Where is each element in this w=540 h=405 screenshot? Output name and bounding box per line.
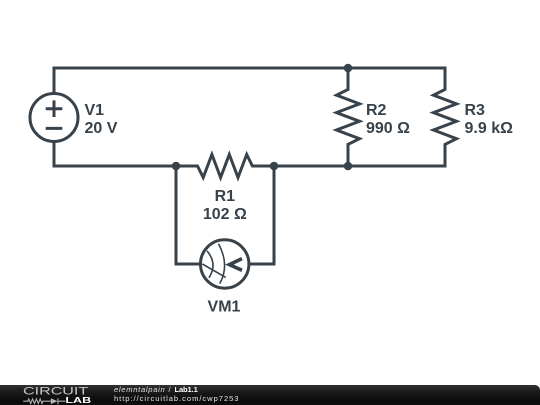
svg-text:R2: R2 xyxy=(366,102,387,119)
svg-text:102 Ω: 102 Ω xyxy=(203,206,247,223)
node junction R1 right xyxy=(270,162,279,171)
voltmeter VM1 xyxy=(201,240,249,288)
svg-text:9.9 kΩ: 9.9 kΩ xyxy=(465,120,514,137)
svg-text:V1: V1 xyxy=(85,102,105,119)
svg-text:R1: R1 xyxy=(215,188,236,205)
wire bottom rail left segment xyxy=(54,142,176,167)
wire bottom rail right segment xyxy=(274,165,447,168)
node junction top (R2 top) xyxy=(344,64,353,73)
svg-text:R3: R3 xyxy=(465,102,486,119)
svg-text:VM1: VM1 xyxy=(208,299,241,316)
wire voltmeter loop right xyxy=(249,166,274,264)
resistor R1 xyxy=(176,155,274,178)
CircuitLab logo xyxy=(20,385,100,405)
resistor R2 xyxy=(337,68,360,166)
voltage source V1 xyxy=(30,94,78,142)
footer bar xyxy=(0,385,540,405)
svg-text:990 Ω: 990 Ω xyxy=(366,120,410,137)
svg-text:20 V: 20 V xyxy=(85,120,118,137)
node junction R2 bottom xyxy=(344,162,353,171)
svg-text:LAB: LAB xyxy=(65,395,91,404)
wire voltmeter loop left xyxy=(176,166,201,264)
resistor R3 xyxy=(434,68,457,166)
node junction R1 left xyxy=(172,162,181,171)
wire top rail xyxy=(54,68,447,94)
footer attribution text xyxy=(114,386,414,403)
